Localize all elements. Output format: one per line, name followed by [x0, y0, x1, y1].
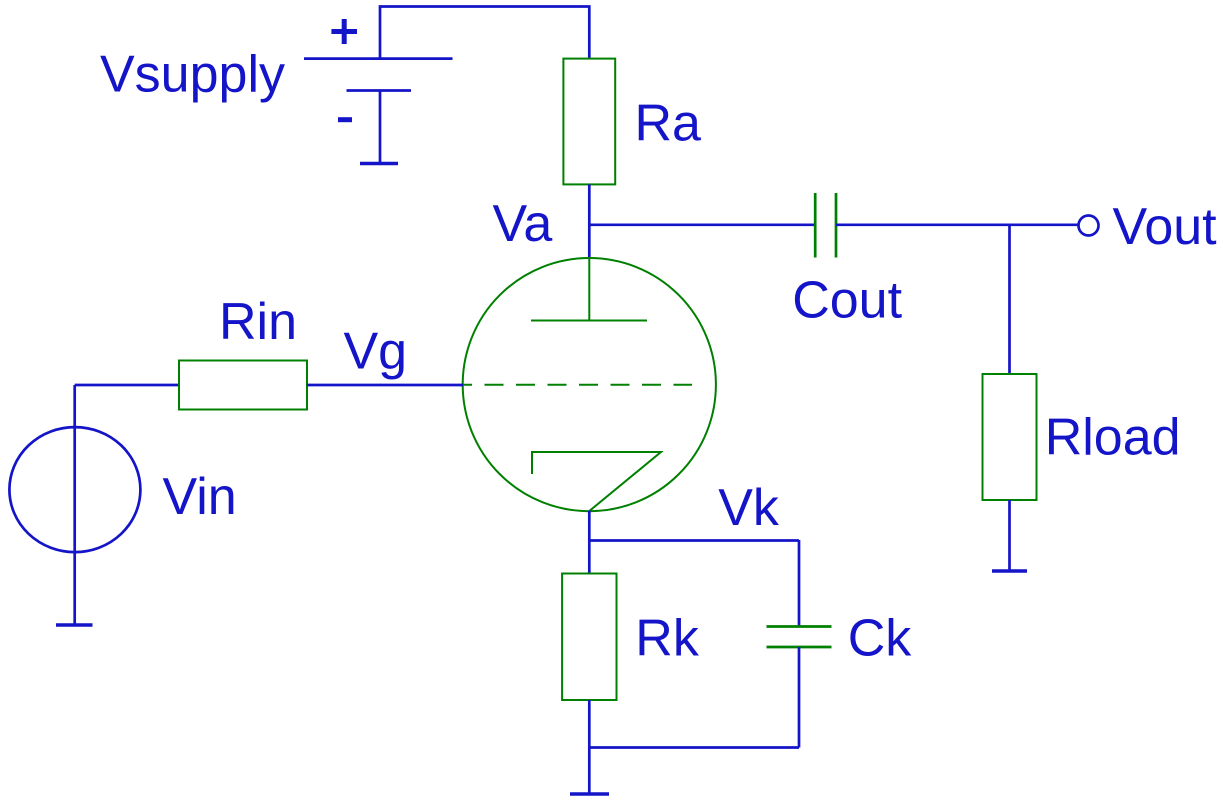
wire Rin to grid	[307, 384, 463, 387]
wire Vin source vertical	[73, 385, 76, 625]
wire cathode to Vk node	[588, 511, 591, 574]
wire Cout to Vout	[836, 223, 1078, 226]
battery Vsupply	[304, 19, 453, 120]
svg-text:Ra: Ra	[635, 95, 702, 153]
svg-text:Rk: Rk	[635, 610, 700, 668]
ground (Rload)	[992, 569, 1027, 573]
wire junction to Rload	[1008, 225, 1011, 374]
resistor Rload	[983, 374, 1037, 500]
svg-text:Rload: Rload	[1045, 409, 1181, 467]
svg-text:Vin: Vin	[163, 468, 237, 526]
ground (Rk)	[570, 792, 609, 796]
svg-text:Vout: Vout	[1113, 198, 1218, 256]
wire Rload to ground	[1008, 500, 1011, 571]
svg-text:Va: Va	[493, 195, 553, 253]
svg-text:Vk: Vk	[718, 479, 780, 537]
ground (battery)	[360, 162, 398, 166]
svg-text:Vg: Vg	[344, 323, 408, 381]
svg-text:Cout: Cout	[792, 271, 902, 329]
wire node Va to Cout	[589, 223, 815, 226]
ground (Vin)	[56, 623, 93, 627]
terminal Vout	[1079, 216, 1099, 236]
wire Vk node to Ck	[589, 539, 799, 542]
svg-text:Rin: Rin	[219, 293, 297, 351]
wire battery to ground	[379, 91, 382, 164]
resistor Ra	[563, 59, 615, 185]
capacitor Ck	[767, 627, 832, 648]
resistor Rk	[562, 574, 616, 701]
wire Ra to anode	[588, 184, 591, 258]
triode V1	[463, 258, 716, 511]
wire Ck lower lead	[798, 647, 801, 748]
source Vin	[9, 427, 140, 552]
wire supply top rail	[380, 7, 589, 59]
wire Rk to ground	[588, 700, 591, 794]
svg-text:Vsupply: Vsupply	[100, 46, 285, 104]
wire Ck upper lead	[798, 540, 801, 627]
resistor Rin	[179, 361, 307, 410]
wire Vin to Rin	[75, 384, 179, 387]
capacitor Cout	[815, 193, 836, 258]
svg-text:Ck: Ck	[848, 610, 913, 668]
wire bottom return	[589, 746, 799, 749]
